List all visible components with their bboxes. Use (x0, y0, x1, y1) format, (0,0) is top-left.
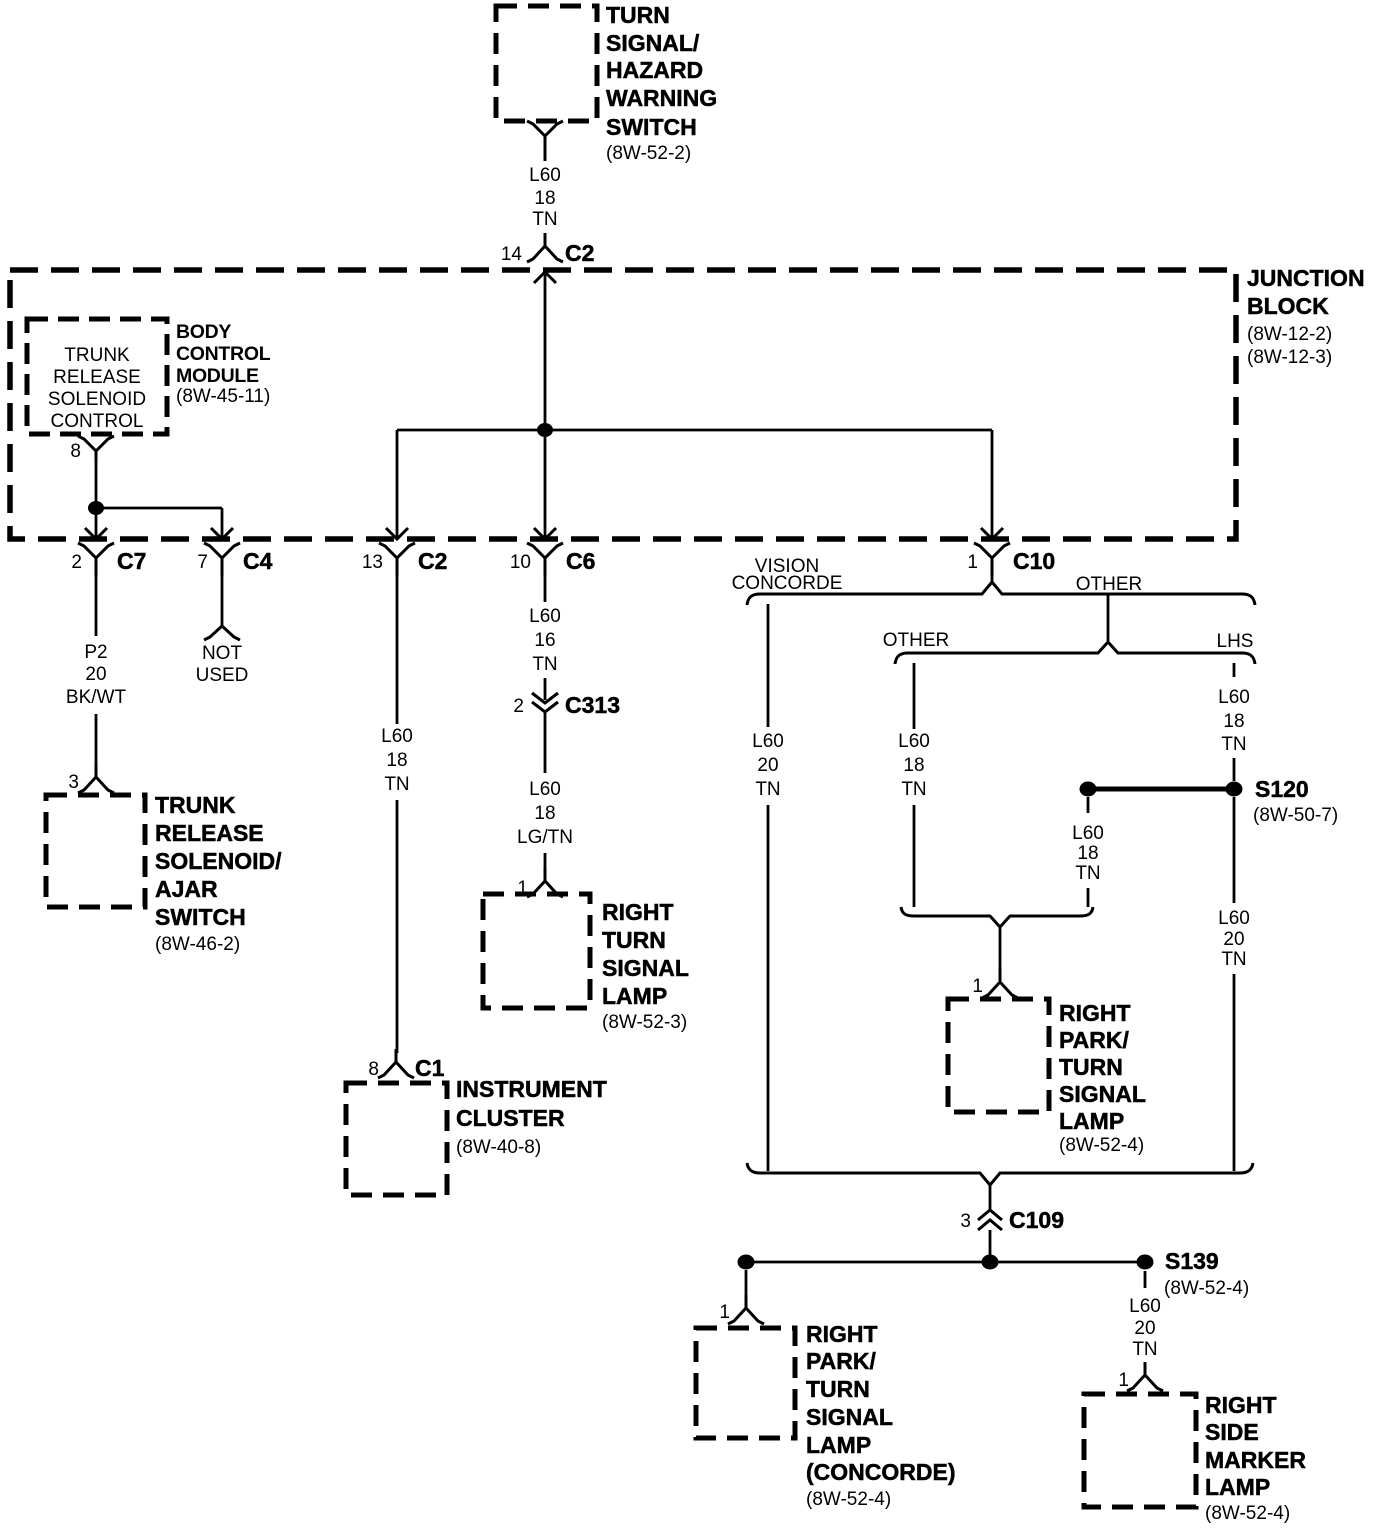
svg-text:L60: L60 (1218, 687, 1250, 708)
svg-text:MARKER: MARKER (1205, 1447, 1306, 1473)
svg-text:C2: C2 (418, 548, 447, 574)
svg-text:18: 18 (1223, 711, 1244, 732)
svg-text:JUNCTION: JUNCTION (1247, 265, 1365, 291)
svg-text:(8W-52-4): (8W-52-4) (1059, 1135, 1144, 1156)
svg-text:(8W-52-4): (8W-52-4) (806, 1489, 891, 1510)
svg-text:PARK/: PARK/ (806, 1348, 876, 1374)
svg-text:SIGNAL: SIGNAL (1059, 1081, 1146, 1107)
svg-text:TN: TN (384, 774, 409, 795)
svg-text:20: 20 (1223, 929, 1244, 950)
svg-text:(8W-50-7): (8W-50-7) (1253, 805, 1338, 826)
svg-text:TN: TN (532, 209, 557, 230)
svg-text:RIGHT: RIGHT (602, 899, 674, 925)
svg-text:C7: C7 (117, 548, 146, 574)
svg-text:L60: L60 (529, 606, 561, 627)
svg-text:(8W-12-3): (8W-12-3) (1247, 347, 1332, 368)
svg-text:7: 7 (197, 552, 208, 573)
svg-text:WARNING: WARNING (606, 85, 717, 111)
svg-text:L60: L60 (898, 731, 930, 752)
svg-text:TURN: TURN (806, 1376, 870, 1402)
svg-text:OTHER: OTHER (1076, 574, 1143, 595)
svg-text:S120: S120 (1255, 776, 1309, 802)
svg-text:1: 1 (967, 552, 978, 573)
svg-text:(8W-52-3): (8W-52-3) (602, 1012, 687, 1033)
svg-text:S139: S139 (1165, 1248, 1219, 1274)
svg-text:C313: C313 (565, 692, 620, 718)
svg-text:C6: C6 (566, 548, 595, 574)
svg-text:3: 3 (960, 1211, 971, 1232)
svg-text:RIGHT: RIGHT (806, 1321, 878, 1347)
svg-text:BODY: BODY (176, 321, 231, 343)
svg-text:(8W-52-4): (8W-52-4) (1164, 1278, 1249, 1299)
svg-text:AJAR: AJAR (155, 876, 218, 902)
svg-text:(8W-52-2): (8W-52-2) (606, 143, 691, 164)
svg-text:8: 8 (368, 1059, 379, 1080)
svg-text:C2: C2 (565, 240, 594, 266)
svg-text:TN: TN (1075, 863, 1100, 884)
svg-text:LAMP: LAMP (1059, 1108, 1124, 1134)
svg-text:L60: L60 (381, 726, 413, 747)
svg-text:1: 1 (719, 1302, 730, 1323)
svg-text:(8W-40-8): (8W-40-8) (456, 1137, 541, 1158)
svg-text:BK/WT: BK/WT (66, 687, 127, 708)
svg-text:16: 16 (534, 630, 555, 651)
svg-text:TRUNK: TRUNK (155, 792, 236, 818)
svg-text:14: 14 (501, 244, 523, 265)
svg-text:CONCORDE: CONCORDE (732, 573, 843, 594)
svg-text:C1: C1 (415, 1055, 445, 1081)
svg-text:TN: TN (755, 779, 780, 800)
svg-text:LAMP: LAMP (1205, 1474, 1270, 1500)
svg-text:13: 13 (362, 552, 383, 573)
svg-text:L60: L60 (752, 731, 784, 752)
svg-text:SIGNAL: SIGNAL (806, 1404, 893, 1430)
svg-text:TURN: TURN (606, 2, 670, 28)
svg-text:MODULE: MODULE (176, 365, 259, 387)
svg-text:10: 10 (510, 552, 531, 573)
svg-text:NOT: NOT (202, 643, 243, 664)
svg-text:INSTRUMENT: INSTRUMENT (456, 1076, 607, 1102)
svg-text:HAZARD: HAZARD (606, 57, 703, 83)
svg-text:SWITCH: SWITCH (606, 114, 697, 140)
svg-text:P2: P2 (84, 642, 107, 663)
svg-text:L60: L60 (1072, 823, 1104, 844)
svg-text:CLUSTER: CLUSTER (456, 1105, 565, 1131)
svg-text:18: 18 (903, 755, 924, 776)
svg-text:(8W-46-2): (8W-46-2) (155, 934, 240, 955)
svg-text:(8W-52-4): (8W-52-4) (1205, 1503, 1290, 1524)
svg-text:OTHER: OTHER (883, 630, 950, 651)
svg-text:RELEASE: RELEASE (53, 367, 141, 388)
svg-text:PARK/: PARK/ (1059, 1027, 1129, 1053)
svg-text:SIDE: SIDE (1205, 1419, 1259, 1445)
svg-text:SIGNAL/: SIGNAL/ (606, 30, 700, 56)
svg-text:20: 20 (85, 664, 106, 685)
svg-text:18: 18 (534, 803, 555, 824)
svg-text:18: 18 (1077, 843, 1098, 864)
svg-text:CONTROL: CONTROL (176, 343, 271, 365)
svg-text:SOLENOID/: SOLENOID/ (155, 848, 282, 874)
svg-text:20: 20 (1134, 1318, 1155, 1339)
svg-text:2: 2 (71, 552, 82, 573)
svg-text:SWITCH: SWITCH (155, 904, 246, 930)
svg-text:LAMP: LAMP (806, 1432, 871, 1458)
svg-text:TRUNK: TRUNK (64, 345, 130, 366)
svg-text:TN: TN (1221, 734, 1246, 755)
svg-text:BLOCK: BLOCK (1247, 293, 1329, 319)
svg-text:TN: TN (1132, 1339, 1157, 1360)
svg-text:TN: TN (901, 779, 926, 800)
svg-text:SOLENOID: SOLENOID (48, 389, 146, 410)
svg-text:TN: TN (532, 654, 557, 675)
svg-text:3: 3 (68, 772, 79, 793)
svg-text:RELEASE: RELEASE (155, 820, 264, 846)
svg-text:C10: C10 (1013, 548, 1055, 574)
svg-text:2: 2 (513, 696, 524, 717)
svg-text:RIGHT: RIGHT (1205, 1392, 1277, 1418)
svg-text:L60: L60 (529, 779, 561, 800)
svg-text:TURN: TURN (602, 927, 666, 953)
svg-text:C4: C4 (243, 548, 273, 574)
svg-text:SIGNAL: SIGNAL (602, 955, 689, 981)
svg-text:(CONCORDE): (CONCORDE) (806, 1459, 956, 1485)
svg-text:CONTROL: CONTROL (51, 411, 144, 432)
svg-text:RIGHT: RIGHT (1059, 1000, 1131, 1026)
svg-text:1: 1 (1118, 1370, 1129, 1391)
svg-text:18: 18 (534, 188, 555, 209)
svg-text:8: 8 (70, 441, 81, 462)
svg-text:(8W-45-11): (8W-45-11) (176, 386, 270, 407)
svg-text:1: 1 (972, 976, 983, 997)
svg-text:TURN: TURN (1059, 1054, 1123, 1080)
svg-text:(8W-12-2): (8W-12-2) (1247, 324, 1332, 345)
svg-text:L60: L60 (1218, 908, 1250, 929)
svg-text:TN: TN (1221, 949, 1246, 970)
svg-text:LAMP: LAMP (602, 983, 667, 1009)
svg-text:L60: L60 (529, 165, 561, 186)
svg-text:LG/TN: LG/TN (517, 827, 573, 848)
svg-text:LHS: LHS (1217, 631, 1254, 652)
svg-text:L60: L60 (1129, 1296, 1161, 1317)
svg-text:20: 20 (757, 755, 778, 776)
svg-text:C109: C109 (1009, 1207, 1064, 1233)
svg-text:USED: USED (196, 665, 249, 686)
svg-text:18: 18 (386, 750, 407, 771)
